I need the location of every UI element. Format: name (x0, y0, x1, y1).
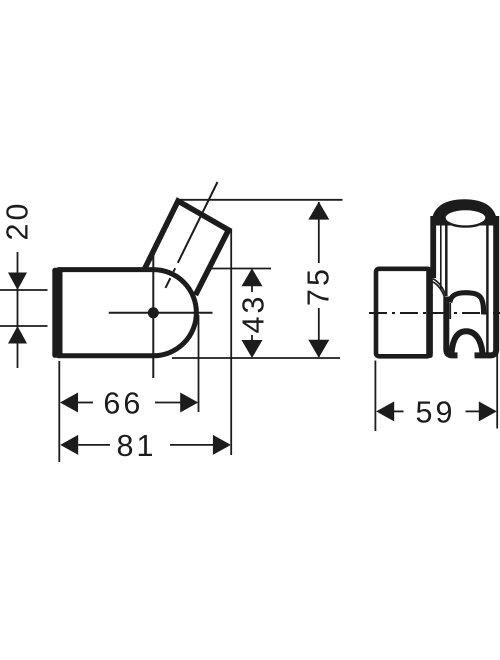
dim 59: arrow left (376, 401, 394, 421)
dim 20: extension line bottom (0, 325, 48, 327)
svg-text:43: 43 (237, 294, 271, 334)
dim 43: stubs (251, 286, 253, 292)
dim 59: left extension line (374, 361, 376, 432)
dim 59: arrow right (479, 401, 497, 421)
dim 20: extension line top (0, 289, 48, 291)
dim 66: arrow left (60, 393, 78, 413)
dim 66/81: left extension line (58, 361, 60, 462)
dim 20: arrow up (8, 326, 27, 344)
body outline (left view, rounded right end) (60, 270, 196, 356)
dim 81: right extension line (230, 229, 232, 456)
wall plate thick right edge (426, 268, 433, 358)
tube outer left edge (upper) (430, 216, 436, 278)
svg-text:75: 75 (302, 266, 336, 306)
dim 75: arrow down (308, 340, 329, 358)
dim 75: arrow up (308, 202, 329, 220)
dim 43: top extension line (209, 268, 271, 270)
dim 81: arrow right (213, 435, 231, 455)
tube lower-left outer edge with bottom corner (446, 297, 457, 356)
upper saddle arc with right hook (450, 293, 484, 315)
dim 81: stubs (78, 444, 110, 446)
neck curves between plate and holder (433, 279, 446, 296)
angled cylinder (holder socket, left view) (145, 201, 229, 295)
pivot center dot (148, 307, 159, 318)
dim 66: stubs (78, 402, 93, 404)
wall-side thick bar (left view left edge) (52, 268, 60, 358)
dim 59: right extension line (496, 353, 498, 429)
dim 75: dimension line upper segment (318, 202, 320, 263)
svg-text:20: 20 (1, 201, 35, 241)
dim 81: arrow left (60, 435, 78, 455)
dim 75: dimension line lower segment (318, 308, 320, 357)
holder tube cap (top opening) (431, 199, 497, 225)
dim 43: arrow down (242, 340, 263, 358)
svg-text:66: 66 (103, 387, 143, 421)
vertical centerline (152, 254, 154, 378)
dim 20: arrow down (8, 273, 27, 291)
holder tube bore opening (white ellipse with rim) (445, 209, 487, 227)
dim 66: right extension line (198, 315, 200, 412)
tube bore-right line (486, 223, 489, 353)
dim 43: arrow up (242, 268, 263, 286)
svg-text:59: 59 (416, 395, 456, 429)
dim 66: arrow right (180, 393, 198, 413)
horizontal centerline (109, 312, 213, 314)
wall plate (right view) (376, 269, 431, 357)
tube outer right edge with bottom corner (475, 216, 497, 355)
svg-text:81: 81 (117, 429, 157, 463)
thin descender from saddle arc left end (449, 303, 451, 319)
dim 20: dimension line (17, 252, 19, 368)
dim 75: top extension line (177, 199, 343, 201)
dim 59: stubs (394, 410, 404, 412)
right view dash-dot centerline (369, 312, 500, 314)
shared bottom extension line (43 and 75) (172, 357, 340, 359)
tube thin inner silhouette left (440, 224, 442, 289)
lower saddle arch (451, 331, 482, 357)
tube bore-left line (445, 224, 448, 297)
cylinder axis dash-dot centerline (153, 182, 217, 313)
